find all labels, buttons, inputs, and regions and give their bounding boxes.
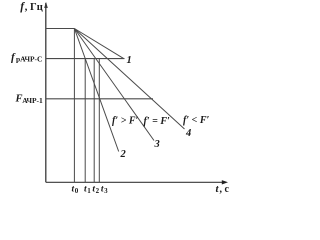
svg-text:f′ < F′: f′ < F′: [183, 115, 210, 126]
vertical t3 line: [98, 59, 100, 183]
level line f рАЧР-С: [46, 58, 125, 60]
frequency trajectory line 1: [74, 29, 123, 59]
svg-text:, Гц: , Гц: [25, 2, 43, 13]
svg-text:3: 3: [154, 139, 160, 150]
svg-text:2: 2: [120, 149, 127, 160]
svg-text:f′ = F′: f′ = F′: [144, 116, 171, 127]
frequency trajectory line 3: [74, 29, 154, 141]
initial frequency level line (top): [46, 28, 75, 30]
frequency trajectory line 2: [74, 29, 118, 152]
svg-text:3: 3: [104, 187, 108, 195]
svg-text:рАЧР-С: рАЧР-С: [16, 55, 42, 64]
y-axis arrowhead: [44, 2, 48, 8]
svg-text:2: 2: [96, 187, 100, 195]
svg-text:1: 1: [87, 187, 91, 195]
y-axis: [45, 3, 47, 182]
frequency trajectory line 4: [74, 29, 184, 130]
vertical t0 line: [73, 29, 75, 183]
svg-text:1: 1: [127, 55, 132, 66]
x-axis arrowhead: [222, 180, 228, 184]
svg-text:0: 0: [75, 187, 79, 195]
svg-text:, с: , с: [220, 184, 230, 195]
vertical t1 line: [84, 59, 86, 183]
svg-text:f′ > F′: f′ > F′: [112, 116, 139, 127]
svg-text:4: 4: [185, 128, 191, 139]
svg-text:АЧР-1: АЧР-1: [22, 96, 43, 105]
x-axis: [46, 181, 226, 183]
level line F АЧР-1: [46, 98, 153, 100]
vertical t2 line: [93, 59, 95, 183]
